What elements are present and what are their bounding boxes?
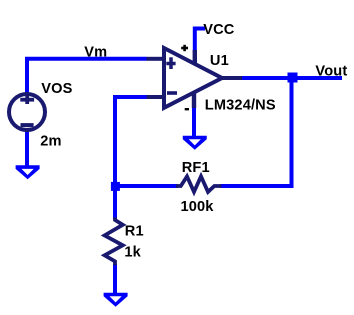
svg-text:Vout: Vout xyxy=(315,64,347,80)
wire negative supply pin to ground xyxy=(192,107,196,139)
junction output node (output / RF1 / Vout) xyxy=(288,73,298,83)
svg-text:VOS: VOS xyxy=(41,81,72,97)
op-amp negative supply pin stub xyxy=(192,93,196,109)
op-amp noninverting input pin stub xyxy=(147,57,163,61)
ground below R1 xyxy=(104,293,128,307)
svg-text:VCC: VCC xyxy=(203,22,235,38)
op-amp inverting input pin stub xyxy=(147,95,163,99)
op-amp positive supply plus marker xyxy=(181,45,188,51)
svg-text:1k: 1k xyxy=(124,245,141,261)
resistor RF1 zigzag xyxy=(176,176,222,192)
resistor R1 zigzag xyxy=(105,217,123,265)
op-amp positive supply pin stub xyxy=(193,50,197,64)
op-amp internal minus marker xyxy=(167,91,177,95)
svg-text:Vm: Vm xyxy=(84,45,107,61)
svg-text:LM324/NS: LM324/NS xyxy=(205,97,276,113)
voltage source VOS minus marker xyxy=(21,123,34,127)
voltage source VOS plus marker xyxy=(20,95,34,104)
wire R1 bottom to ground xyxy=(113,264,117,296)
svg-text:U1: U1 xyxy=(210,53,229,69)
wire feedback node to RF1 left lead xyxy=(115,184,178,188)
wire feedback node down to R1 xyxy=(113,186,117,219)
svg-text:2m: 2m xyxy=(40,133,61,149)
op-amp internal plus marker xyxy=(166,57,175,69)
ground below op-amp negative supply xyxy=(183,136,207,150)
voltage source VOS body xyxy=(9,94,45,130)
wire RF1 right lead to output column xyxy=(220,80,292,186)
junction feedback node (inverting input / RF1 / R1) xyxy=(111,182,120,191)
wire inverting input net: stub to corner down to feedback node xyxy=(115,97,147,184)
wire VCC supply pin riser xyxy=(195,29,205,53)
wire VOS bottom to ground xyxy=(25,130,29,168)
svg-text:R1: R1 xyxy=(125,224,144,240)
ground below VOS xyxy=(16,165,40,179)
wire op-amp output to Vout xyxy=(241,76,342,80)
op-amp output pin stub xyxy=(220,76,242,80)
op-amp negative supply minus marker xyxy=(185,108,189,110)
wire Vm net: VOS top to op-amp noninverting input xyxy=(27,59,147,94)
op-amp U1 triangle body xyxy=(164,48,222,108)
svg-text:RF1: RF1 xyxy=(182,160,210,176)
svg-text:100k: 100k xyxy=(181,199,215,215)
